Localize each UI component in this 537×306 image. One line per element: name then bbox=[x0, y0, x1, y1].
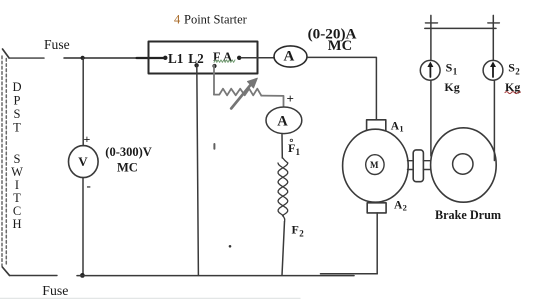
svg-text:+: + bbox=[84, 132, 91, 146]
voltmeter V1 bbox=[69, 146, 99, 178]
green squiggle under F A bbox=[214, 60, 235, 63]
svg-text:W: W bbox=[11, 165, 23, 179]
belt rope left upper bbox=[430, 15, 432, 59]
rheostat field regulator (gray) bbox=[214, 65, 284, 106]
wire L2 down to bottom bbox=[197, 65, 199, 275]
svg-text:(0-300)V: (0-300)V bbox=[105, 145, 152, 159]
node dot at A bbox=[237, 56, 241, 60]
label F2 bbox=[292, 223, 305, 239]
svg-text:I: I bbox=[15, 178, 19, 192]
svg-text:Fuse: Fuse bbox=[42, 283, 68, 298]
svg-text:2: 2 bbox=[403, 202, 407, 212]
support beam bbox=[425, 27, 496, 29]
stray mark tick bbox=[213, 144, 215, 149]
svg-text:1: 1 bbox=[399, 123, 403, 133]
DPST bottom blade diagonal bbox=[2, 267, 9, 275]
svg-text:H: H bbox=[12, 217, 21, 231]
svg-text:A: A bbox=[284, 49, 295, 65]
wire ammeter to motor A1 bbox=[307, 57, 376, 119]
svg-text:4: 4 bbox=[174, 13, 181, 27]
svg-text:L1: L1 bbox=[168, 51, 183, 66]
wire A terminal to ammeter A1 bbox=[241, 57, 274, 59]
wire top-left to fuse bbox=[9, 57, 44, 59]
label L1 L2 F A bbox=[168, 50, 232, 66]
svg-text:S: S bbox=[446, 61, 453, 75]
belt rope right lower bbox=[493, 80, 495, 160]
svg-text:MC: MC bbox=[328, 38, 352, 54]
svg-text:S: S bbox=[14, 107, 21, 121]
label S2 Kg bbox=[505, 61, 520, 95]
belt rope left lower bbox=[430, 80, 432, 156]
belt rope right upper bbox=[492, 15, 494, 59]
shaft right bars bbox=[423, 161, 430, 170]
motor terminal A1 box bbox=[367, 120, 386, 131]
svg-text:-: - bbox=[87, 178, 91, 193]
svg-text:1: 1 bbox=[296, 147, 301, 157]
svg-text:1: 1 bbox=[453, 67, 458, 77]
svg-text:2: 2 bbox=[299, 229, 304, 239]
wire F2 down to bottom bbox=[282, 222, 285, 276]
svg-text:MC: MC bbox=[117, 161, 138, 175]
wire voltmeter lower lead bbox=[82, 178, 84, 276]
DPST top blade diagonal bbox=[3, 49, 10, 58]
support tick right bbox=[488, 22, 500, 24]
support tick left bbox=[425, 22, 437, 24]
svg-text:T: T bbox=[13, 191, 21, 205]
spring balance S2 bbox=[483, 60, 503, 80]
brake drum hub hole bbox=[453, 154, 473, 174]
svg-text:Kg: Kg bbox=[444, 80, 459, 94]
wire fuse to starter box bbox=[64, 57, 137, 59]
svg-text:F: F bbox=[292, 223, 299, 237]
wire bottom main bbox=[77, 275, 354, 277]
svg-text:D: D bbox=[12, 80, 21, 94]
faint scan line bottom bbox=[0, 297, 300, 299]
wire bottom left segment bbox=[10, 275, 58, 277]
wire motor A2 to bottom bbox=[376, 213, 378, 274]
svg-text:S: S bbox=[14, 152, 21, 166]
DPST label letters bbox=[11, 80, 23, 231]
label F1 bbox=[288, 139, 301, 157]
svg-text:+: + bbox=[287, 91, 294, 106]
svg-text:V: V bbox=[78, 154, 88, 169]
label A1 bbox=[391, 120, 404, 133]
svg-text:C: C bbox=[13, 204, 21, 218]
label (0-20)A MC bbox=[308, 25, 357, 54]
ammeter A2 field bbox=[266, 107, 302, 134]
ammeter A1 line bbox=[274, 46, 307, 67]
coupling block bbox=[413, 150, 423, 182]
label S1 Kg bbox=[444, 61, 459, 95]
svg-text:M: M bbox=[370, 160, 379, 170]
svg-text:F: F bbox=[288, 141, 295, 155]
brake drum body bbox=[431, 128, 497, 202]
wire voltmeter upper lead bbox=[82, 58, 84, 145]
motor terminal A2 box bbox=[367, 203, 386, 213]
stray mark dot bbox=[229, 245, 232, 248]
field winding coil F1-F2 bbox=[278, 158, 288, 222]
rheostat wiper arrow (gray) bbox=[231, 78, 257, 108]
svg-text:Fuse: Fuse bbox=[44, 37, 70, 52]
motor M body bbox=[343, 129, 409, 202]
wire ammeter to F1 bbox=[281, 134, 283, 158]
label A2 bbox=[394, 199, 407, 212]
node dot at L1 bbox=[163, 56, 167, 60]
svg-text:S: S bbox=[508, 61, 515, 75]
node dot below F bbox=[212, 64, 216, 68]
label (0-300)V MC bbox=[105, 145, 152, 175]
svg-text:A: A bbox=[277, 113, 288, 129]
svg-text:Brake Drum: Brake Drum bbox=[435, 208, 501, 222]
red squiggle under Kg bbox=[505, 92, 520, 94]
svg-text:T: T bbox=[13, 121, 21, 135]
node junction dot top (voltmeter tap) bbox=[81, 56, 85, 60]
motor inner circle M bbox=[366, 155, 384, 175]
svg-text:2: 2 bbox=[515, 67, 520, 77]
node dot below L2 bbox=[194, 63, 198, 67]
label 4 Point Starter bbox=[174, 13, 248, 27]
starter box bbox=[149, 42, 258, 74]
svg-text:P: P bbox=[14, 94, 21, 108]
spring balance S1 bbox=[420, 60, 440, 80]
node junction dot bottom (voltmeter tap) bbox=[80, 273, 85, 278]
shaft left bars bbox=[408, 161, 414, 170]
DPST switch dashed bar bbox=[2, 56, 6, 266]
svg-text:Point Starter: Point Starter bbox=[184, 13, 248, 27]
